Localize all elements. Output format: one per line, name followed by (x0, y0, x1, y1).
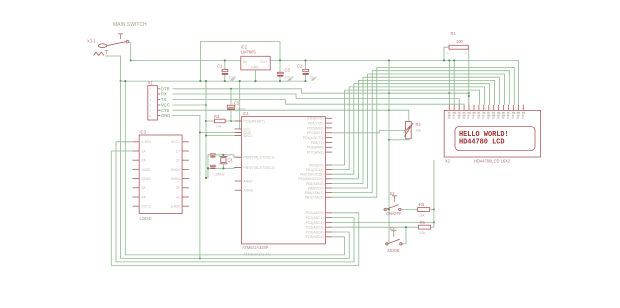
svg-text:GND2: GND2 (142, 177, 152, 181)
svg-text:GND: GND (251, 65, 259, 69)
junction (205, 134, 207, 136)
svg-text:MODE: MODE (388, 248, 401, 253)
svg-text:Q1: Q1 (228, 158, 234, 163)
svg-text:1A: 1A (142, 149, 147, 153)
svg-text:PC6(/RESET): PC6(/RESET) (244, 120, 265, 124)
svg-text:10k: 10k (416, 129, 422, 133)
svg-text:R2: R2 (416, 122, 422, 127)
svg-text:AVCC: AVCC (244, 134, 254, 138)
svg-text:PD2(INT0): PD2(INT0) (307, 126, 323, 130)
trimmer R2 (332, 122, 421, 141)
voltage regulator IC2 (241, 45, 270, 83)
junction (433, 221, 435, 223)
junction (130, 59, 132, 61)
svg-text:RX: RX (161, 92, 167, 97)
wire AVCC branch (206, 135, 242, 137)
svg-text:VCC2: VCC2 (142, 205, 151, 209)
svg-text:PD1(TXD): PD1(TXD) (308, 122, 324, 126)
svg-text:1: 1 (150, 87, 152, 91)
svg-text:AGND: AGND (244, 189, 254, 193)
svg-text:C2: C2 (297, 64, 303, 69)
svg-text:GND1: GND1 (142, 168, 152, 172)
resistor R1 (443, 31, 470, 105)
svg-text:PD5(T1): PD5(T1) (311, 141, 324, 145)
svg-text:PD7(AIN1): PD7(AIN1) (307, 151, 323, 155)
svg-text:PC0(ADC0): PC0(ADC0) (306, 211, 324, 215)
svg-text:PB4(MISO): PB4(MISO) (306, 182, 323, 186)
svg-text:4A: 4A (142, 195, 147, 199)
svg-text:6: 6 (150, 114, 152, 118)
junction (388, 109, 390, 111)
svg-text:S2: S2 (390, 191, 396, 196)
svg-text:VCC1: VCC1 (171, 140, 180, 144)
junction (205, 80, 207, 82)
junction (453, 59, 455, 61)
svg-text:PD6(AIN0): PD6(AIN0) (307, 146, 323, 150)
wire PC2 to column (332, 221, 434, 223)
crystal Q1 (221, 158, 226, 163)
junction (205, 120, 207, 122)
capacitor C3 (277, 68, 294, 83)
wire TX to PD1 (173, 100, 465, 105)
svg-text:GND4: GND4 (171, 177, 181, 181)
svg-text:HD44780 LCD: HD44780 LCD (459, 139, 505, 147)
svg-text:1,2EN: 1,2EN (142, 140, 152, 144)
junction (199, 131, 201, 133)
svg-text:5: 5 (150, 109, 152, 113)
svg-text:PB0(ICP): PB0(ICP) (309, 163, 323, 167)
wire CTS to bottom loop (173, 109, 390, 111)
wire (230, 89, 232, 105)
wire (121, 81, 350, 258)
wire (453, 60, 455, 104)
svg-text:3: 3 (150, 98, 152, 102)
junction (205, 104, 207, 106)
svg-text:R6: R6 (420, 220, 426, 225)
LCD pin numbers (448, 112, 525, 119)
wire S-column x389 (388, 60, 390, 244)
switch S2 (384, 191, 418, 216)
svg-text:PB7(XTAL2/TOSC2): PB7(XTAL2/TOSC2) (244, 166, 275, 170)
connector pad X3-2 zigzag (94, 52, 104, 55)
svg-text:PD0(RXD): PD0(RXD) (307, 117, 323, 121)
junction (448, 59, 450, 61)
staircase bus PD2..PB1 to LCD (332, 68, 514, 198)
svg-text:16MHz: 16MHz (214, 173, 225, 177)
left pin labels (244, 120, 275, 193)
svg-text:1: 1 (447, 51, 449, 55)
junction (239, 80, 241, 82)
wire trimmer feed (389, 110, 409, 121)
junction (468, 92, 470, 94)
junction (124, 80, 126, 82)
wire RX to PD0 (173, 94, 460, 105)
svg-text:PC4(ADC4): PC4(ADC4) (306, 230, 324, 234)
wire DTR to C5 (173, 89, 469, 105)
junction (388, 59, 390, 61)
LCD display X2 (444, 110, 540, 163)
switch S1 actuator (118, 34, 123, 39)
wire VDD drops (448, 60, 450, 104)
wire VCC to +5 vertical (173, 104, 207, 106)
svg-text:ATMEGA328P: ATMEGA328P (242, 245, 269, 250)
LCD pins (449, 105, 523, 111)
svg-text:10k: 10k (419, 214, 425, 218)
svg-text:PC1(ADC1): PC1(ADC1) (306, 216, 324, 220)
junction (199, 257, 201, 259)
svg-text:100: 100 (456, 39, 464, 44)
resistor R6 (332, 220, 434, 244)
svg-text:HD44780LCD 16X2: HD44780LCD 16X2 (474, 159, 511, 164)
header X1 (148, 80, 171, 120)
crystal Q1 cluster (205, 154, 242, 179)
svg-text:PD3(INT1): PD3(INT1) (307, 131, 323, 135)
svg-text:2: 2 (150, 92, 152, 96)
wire switch top to V+ rail (129, 42, 131, 61)
vertical +5 feed x206 (205, 81, 207, 178)
svg-text:2A: 2A (142, 159, 147, 163)
capacitor C5 (227, 101, 246, 123)
svg-text:PB6(XTAL1/TOSC1): PB6(XTAL1/TOSC1) (244, 156, 275, 160)
junction (279, 59, 281, 61)
junction (120, 80, 122, 82)
svg-text:PD4(XCK/T0): PD4(XCK/T0) (303, 136, 324, 140)
wire GND branch to pin (200, 132, 242, 134)
wire (116, 142, 354, 262)
svg-text:ON/OFF: ON/OFF (386, 211, 402, 216)
svg-text:2Y: 2Y (176, 159, 181, 163)
capacitor C1 (217, 59, 236, 82)
svg-text:R1: R1 (451, 31, 457, 36)
capacitor C2 (297, 59, 317, 82)
wire GND rail (121, 80, 306, 82)
svg-text:CTS: CTS (161, 108, 170, 113)
switch S1 lever (107, 42, 127, 46)
svg-text:L293D: L293D (140, 216, 152, 221)
right pin labels (298, 117, 323, 240)
switch S3 (386, 226, 403, 253)
svg-text:LM7805: LM7805 (241, 50, 257, 55)
svg-text:PC2(ADC2): PC2(ADC2) (306, 221, 324, 225)
resistor R5 (418, 202, 435, 218)
svg-text:MAIN SWITCH: MAIN SWITCH (113, 22, 147, 28)
svg-text:GND: GND (161, 113, 170, 118)
svg-text:3,4EN: 3,4EN (171, 205, 181, 209)
left pin stubs (235, 121, 242, 190)
svg-text:R5: R5 (419, 202, 425, 207)
wire bypass top (200, 42, 280, 82)
svg-text:3A: 3A (142, 186, 147, 190)
resistor R3 reset pullup (206, 114, 242, 129)
wire V+ rail (131, 60, 519, 104)
svg-text:OUT: OUT (260, 60, 267, 64)
svg-text:AREF: AREF (244, 179, 253, 183)
svg-text:IC1: IC1 (243, 111, 250, 116)
junction (388, 92, 390, 94)
wire switch bottom to GND rail (105, 56, 121, 81)
svg-text:X2: X2 (445, 159, 451, 164)
junction (230, 88, 232, 90)
svg-text:C1: C1 (217, 64, 223, 69)
wire (111, 151, 358, 265)
svg-text:PB7(XTAL2): PB7(XTAL2) (305, 196, 324, 200)
svg-text:TX: TX (161, 97, 167, 102)
right pin stubs (325, 118, 332, 237)
svg-text:PB2(SS/OC1B): PB2(SS/OC1B) (300, 173, 323, 177)
svg-text:PC3(ADC3): PC3(ADC3) (306, 226, 324, 230)
capacitor C7 (211, 165, 216, 166)
svg-text:PB1(OC1A): PB1(OC1A) (306, 168, 324, 172)
svg-text:10k: 10k (420, 231, 426, 235)
svg-text:PB5(SCK): PB5(SCK) (308, 186, 324, 190)
capacitor C6 (211, 154, 216, 155)
svg-text:10k: 10k (216, 125, 222, 129)
motor driver IC3 L293D (132, 130, 189, 222)
svg-text:3Y: 3Y (176, 186, 181, 190)
svg-text:4Y: 4Y (176, 195, 181, 199)
wires crystal (215, 155, 241, 157)
wire right column x433.9 (433, 160, 435, 227)
wire VCC drop x239.7 (240, 81, 242, 129)
component part (126, 40, 128, 42)
small T mark (105, 51, 109, 54)
svg-text:PC5(ADC5): PC5(ADC5) (306, 235, 324, 239)
microcontroller IC1 ATMEGA328P (235, 111, 333, 256)
svg-text:1Y: 1Y (176, 149, 181, 153)
svg-text:C5: C5 (234, 101, 240, 106)
junction (448, 92, 450, 94)
svg-text:X3-1: X3-1 (87, 39, 96, 44)
svg-text:C3: C3 (285, 68, 291, 73)
svg-text:PB3(MOSI/OC2): PB3(MOSI/OC2) (298, 177, 323, 181)
svg-text:S3: S3 (390, 226, 396, 231)
svg-text:GND3: GND3 (171, 168, 181, 172)
junction (199, 80, 201, 82)
svg-text:R3: R3 (214, 114, 220, 119)
svg-text:4: 4 (150, 103, 152, 107)
wire GND to bottom loop (173, 116, 200, 259)
svg-text:IC3: IC3 (140, 130, 147, 135)
svg-text:2: 2 (465, 51, 467, 55)
connector pad X3-1 (98, 44, 106, 48)
bottom loop wires (125, 81, 344, 255)
svg-text:PB6(XTAL1): PB6(XTAL1) (305, 191, 324, 195)
svg-text:X1: X1 (148, 80, 154, 85)
svg-text:IN: IN (243, 60, 247, 64)
